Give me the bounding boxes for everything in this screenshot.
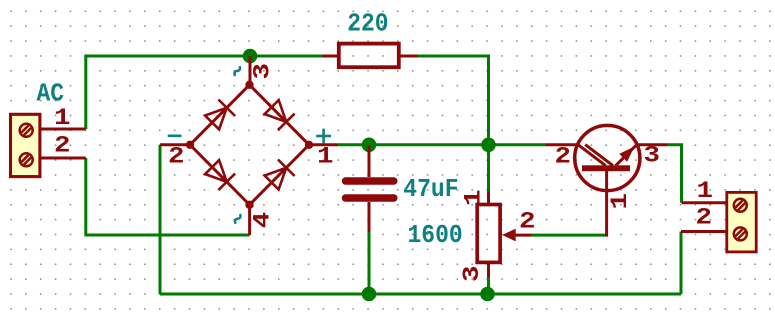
pin stub bridge 1 [309, 143, 338, 146]
wire emitter to output pin1 [668, 145, 682, 203]
svg-text:1: 1 [54, 105, 71, 132]
pin stub cap bottom [368, 202, 371, 232]
svg-text:AC: AC [37, 79, 65, 109]
svg-text:3: 3 [644, 143, 661, 170]
pin stub pot wiper [515, 234, 532, 237]
pin stub transistor 3 [635, 143, 668, 146]
svg-text:1: 1 [607, 193, 634, 210]
terminal block OUT screw 1 [734, 199, 747, 212]
wire pot pin1 riser [487, 145, 490, 192]
bridge tilde top [234, 66, 240, 76]
bridge minus sign [168, 135, 182, 138]
wire capacitor bottom drop [368, 232, 371, 294]
bridge diode D-TL [205, 100, 235, 130]
svg-text:220: 220 [347, 8, 388, 38]
svg-text:2: 2 [555, 144, 572, 171]
potentiometer wiper arrow [502, 229, 516, 242]
junction at cap bottom [362, 287, 377, 302]
transistor collector lines [578, 145, 613, 166]
junction at pot top [481, 138, 496, 153]
bridge diode D-BR [265, 160, 295, 190]
svg-text:2: 2 [54, 133, 71, 160]
bridge vertex dot left [186, 141, 194, 149]
transistor emitter line [616, 145, 637, 166]
svg-text:2: 2 [168, 144, 185, 171]
transistor Q1 circle [575, 125, 640, 190]
pin stub resistor right [399, 55, 418, 58]
bridge diode D-BL [205, 160, 235, 190]
pin stub output 1 [682, 201, 728, 204]
wire AC pin2 drop and run to bridge pin4 [86, 158, 250, 235]
svg-text:2: 2 [696, 205, 713, 232]
bridge tilde bottom [235, 214, 241, 224]
pin stub output 2 [681, 230, 728, 233]
svg-text:3: 3 [250, 63, 277, 80]
pin stub bridge 3 [249, 56, 252, 85]
resistor R 220 body [339, 44, 399, 68]
capacitor 47uF plate bottom [346, 194, 394, 202]
svg-text:1600: 1600 [408, 220, 463, 250]
bridge vertex dot top [245, 81, 253, 89]
transistor emitter arrowhead [619, 147, 634, 162]
wire wiper to transistor base [532, 234, 606, 237]
junction at pot bottom [480, 287, 495, 302]
transistor base lead [605, 170, 608, 237]
bridge rectifier edges [190, 85, 309, 205]
pin stub bridge 4 [248, 205, 251, 235]
svg-text:1: 1 [697, 178, 714, 205]
junction at resistor/bridge top [243, 49, 258, 64]
pin stub pot 1 [487, 192, 490, 205]
bridge vertex dot right [305, 141, 313, 149]
junction at cap top [362, 138, 377, 153]
svg-text:47uF: 47uF [403, 174, 458, 204]
svg-text:1: 1 [317, 144, 334, 171]
wire top rail right and riser to mid rail [417, 56, 489, 145]
wire ground rail [160, 293, 681, 296]
pin stub AC 1 [41, 128, 86, 131]
wire bridge pin2 drop to ground rail [159, 145, 162, 294]
pin stub transistor 2 [546, 143, 578, 146]
wire mid rail [338, 143, 547, 146]
wire pot pin3 drop [487, 277, 490, 294]
svg-text:4: 4 [249, 212, 276, 229]
svg-text:2: 2 [519, 209, 536, 236]
wire AC pin1 riser and top rail left [86, 56, 323, 129]
svg-text:1: 1 [461, 190, 488, 207]
terminal block AC screw 1 [20, 124, 33, 137]
terminal block AC screw 2 [20, 153, 33, 166]
potentiometer 1600 body [477, 205, 500, 263]
pin stub cap top [368, 146, 371, 177]
bridge plus sign [316, 129, 331, 144]
capacitor 47uF plate top [346, 177, 394, 185]
svg-text:3: 3 [459, 266, 486, 283]
pin stub bridge 2 [160, 143, 190, 146]
bridge diode D-TR [265, 100, 295, 130]
pin stub pot 3 [487, 263, 490, 278]
transistor base bar [582, 165, 630, 171]
terminal block AC body [11, 114, 40, 176]
pin stub resistor left [323, 55, 340, 58]
terminal block OUT screw 2 [734, 227, 747, 240]
bridge vertex dot bottom [245, 201, 253, 209]
wire output pin2 drop to ground rail [680, 232, 683, 295]
pin stub AC 2 [41, 157, 86, 160]
terminal block OUT body [727, 192, 756, 252]
